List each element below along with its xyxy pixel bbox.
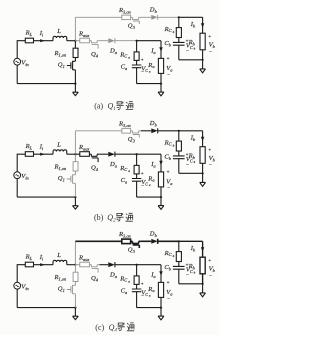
wire Raux to Q4 (b) xyxy=(89,153,91,155)
wire Da to node C (b) xyxy=(115,153,137,155)
wire Rb to b bottom (a) xyxy=(202,50,204,60)
transistor Q3 (b) xyxy=(131,131,141,138)
wire node A up (b) xyxy=(74,131,76,154)
wire node A to Raux (c) xyxy=(75,264,79,266)
inductor L (b) xyxy=(53,150,67,154)
resistor Ra (c) xyxy=(158,282,163,297)
diode Da (b) xyxy=(108,152,115,157)
svg-text:−: − xyxy=(167,186,171,192)
voltage source Vin (b) xyxy=(14,172,21,179)
resistor RCa (b) xyxy=(134,165,139,174)
wire node B down (a) xyxy=(178,17,180,27)
diode Db (a) xyxy=(151,15,157,20)
node A junction (b) xyxy=(74,153,76,155)
junction dot a bottom (a) xyxy=(160,83,162,85)
wire Q1 to bottom rail (a) xyxy=(74,70,76,84)
wire node B to Rb branch (a) xyxy=(179,17,203,33)
wire RCa to Ca (c) xyxy=(136,284,138,289)
svg-text:−: − xyxy=(186,272,190,278)
resistor R1on (b) xyxy=(73,162,78,171)
current arrow Ib (c) xyxy=(201,247,204,252)
wire Db to node B (b) xyxy=(158,130,179,132)
ground main (b) xyxy=(74,197,76,206)
svg-text:−: − xyxy=(186,162,190,168)
wire node C down (c) xyxy=(136,265,138,276)
svg-text:+: + xyxy=(166,170,170,176)
wire RCb to Cb (a) xyxy=(178,38,180,43)
svg-text:L: L xyxy=(56,28,61,35)
junction dot a bottom (b) xyxy=(160,196,162,198)
wire Raux to Q4 (a) xyxy=(89,40,91,42)
svg-text:−: − xyxy=(209,273,213,279)
resistor Rb (c) xyxy=(200,257,205,274)
svg-text:−: − xyxy=(141,294,145,300)
wire RL to L with current arrow Ii (a) xyxy=(34,40,54,42)
resistor Ra (a) xyxy=(158,58,163,73)
svg-text:a: a xyxy=(128,279,130,283)
current arrow Ii (b) xyxy=(40,153,45,156)
node A junction (a) xyxy=(74,40,76,42)
inductor L (c) xyxy=(53,260,67,264)
resistor Raux (c) xyxy=(80,262,90,267)
diode Db (c) xyxy=(151,239,157,244)
wire node A up (c) xyxy=(74,241,76,264)
svg-text:−: − xyxy=(167,72,171,78)
bottom rail (a) xyxy=(17,83,75,85)
junction dot b bottom (b) xyxy=(202,172,204,174)
ground b (a) xyxy=(202,60,204,69)
wire RCb to Cb (c) xyxy=(178,262,180,267)
resistor RL (b) xyxy=(25,152,33,157)
wire node A down to R1on (c) xyxy=(74,265,76,273)
circuit (c) xyxy=(14,231,216,320)
wire Q3 to Db (a) xyxy=(141,16,151,18)
wire Rb to b bottom (b) xyxy=(202,163,204,173)
current arrow Ib (a) xyxy=(201,23,204,28)
ground main (a) xyxy=(74,84,76,93)
resistor RCb (c) xyxy=(176,252,181,262)
junction dot a bottom (c) xyxy=(160,307,162,309)
junction dot bottom rail (a) xyxy=(74,83,76,85)
svg-text:(c): (c) xyxy=(95,323,104,332)
wire Q1 to bottom rail (b) xyxy=(74,183,76,197)
svg-text:(b): (b) xyxy=(94,213,104,222)
svg-text:+: + xyxy=(166,280,170,286)
wire node A up (a) xyxy=(74,17,76,40)
wire node C down (b) xyxy=(136,154,138,165)
wire Vin top to RL (c) xyxy=(17,265,25,283)
transistor Q4 (a) xyxy=(91,41,99,49)
resistor Raux (b) xyxy=(80,152,90,157)
transistor Q1 (c) xyxy=(67,285,76,294)
svg-text:−: − xyxy=(167,296,171,302)
wire Da to node C (c) xyxy=(115,264,137,266)
bottom rail (c) xyxy=(17,307,75,309)
wire RCb to Cb (b) xyxy=(178,151,180,156)
capacitor Ca (a) xyxy=(132,65,141,68)
transistor Q1 (a) xyxy=(67,61,76,70)
wire node C down (a) xyxy=(136,41,138,52)
wire R1on to Q1 (b) xyxy=(74,171,76,175)
resistor RL (a) xyxy=(25,38,33,43)
resistor R3on (a) xyxy=(122,15,131,20)
svg-text:b: b xyxy=(173,30,175,34)
junction dot bottom rail (b) xyxy=(74,196,76,198)
wire node B to Rb branch (b) xyxy=(179,131,203,147)
top rail wire (c) xyxy=(75,240,121,242)
current arrow Ia (c) xyxy=(159,271,162,276)
resistor Ra (b) xyxy=(158,172,163,187)
voltage source Vin (a) xyxy=(14,58,21,65)
resistor Raux (a) xyxy=(80,38,90,43)
wire Ca to a bottom (c) xyxy=(136,292,138,308)
svg-text:−: − xyxy=(186,48,190,54)
wire Ra to a bottom (b) xyxy=(160,187,162,197)
current arrow Ia (b) xyxy=(159,161,162,166)
wire Da to node C (a) xyxy=(115,40,137,42)
svg-text:a: a xyxy=(128,55,130,59)
wire Ra to a bottom (c) xyxy=(160,297,162,307)
resistor RCb (a) xyxy=(176,28,181,38)
wire Vin top to RL (a) xyxy=(17,41,25,59)
wire L to node A (c) xyxy=(67,264,76,266)
svg-text:+: + xyxy=(208,148,212,154)
ground b (c) xyxy=(202,284,204,293)
junction dot b bottom (a) xyxy=(202,59,204,61)
wire Vin bottom (b) xyxy=(16,179,18,198)
inductor L (a) xyxy=(53,36,67,40)
wire Q3 to Db (b) xyxy=(141,130,151,132)
voltage source Vin (c) xyxy=(14,282,21,289)
wire RL to L with current arrow Ii (c) xyxy=(34,264,54,266)
wire node A down to R1on (a) xyxy=(74,41,76,49)
svg-text:a: a xyxy=(128,169,130,173)
svg-text:+: + xyxy=(140,171,144,177)
node A junction (c) xyxy=(74,264,76,266)
capacitor Ca (b) xyxy=(132,179,141,182)
current arrow Ii (c) xyxy=(40,263,45,266)
node B junction (c) xyxy=(178,240,180,242)
svg-text:(a): (a) xyxy=(94,102,103,111)
wire Vin top to RL (b) xyxy=(17,154,25,172)
resistor R3on (c) xyxy=(122,239,131,244)
top rail wire (a) xyxy=(75,16,121,18)
resistor RCb (b) xyxy=(176,141,181,151)
resistor RL (c) xyxy=(25,262,33,267)
wire RCa to Ca (a) xyxy=(136,60,138,65)
resistor Rb (a) xyxy=(200,33,205,50)
wire node A down to R1on (b) xyxy=(74,154,76,162)
svg-text:b: b xyxy=(173,143,175,147)
a bottom wire (b) xyxy=(137,196,161,198)
b bottom wire (c) xyxy=(179,283,203,285)
junction dot bottom rail (c) xyxy=(74,307,76,309)
wire Ca to a bottom (b) xyxy=(136,181,138,197)
svg-text:−: − xyxy=(209,163,213,169)
wire Db to node B (c) xyxy=(158,240,179,242)
diode Da (a) xyxy=(108,38,115,43)
capacitor Ca (c) xyxy=(132,289,141,292)
wire node B to Rb branch (c) xyxy=(179,241,203,257)
svg-text:+: + xyxy=(208,258,212,264)
resistor RCa (c) xyxy=(134,276,139,285)
transistor Q3 (c) xyxy=(131,241,141,248)
circuit (a) xyxy=(14,7,216,96)
wire Db to node B (a) xyxy=(158,16,179,18)
current arrow Ib (b) xyxy=(201,137,204,142)
wire RL to L with current arrow Ii (b) xyxy=(34,153,54,155)
wire Cb to b bottom (a) xyxy=(178,45,180,60)
svg-text:L: L xyxy=(56,142,61,149)
a bottom wire (c) xyxy=(137,307,161,309)
transistor Q4 (b) xyxy=(91,154,99,162)
wire R1on to Q1 (a) xyxy=(74,58,76,62)
ground main (c) xyxy=(74,308,76,317)
resistor RCa (a) xyxy=(134,52,139,61)
node B junction (a) xyxy=(178,16,180,18)
wire node C to Ra branch (a) xyxy=(137,41,161,59)
wire Q4 to Da (a) xyxy=(99,40,108,42)
top rail wire (b) xyxy=(75,130,121,132)
node B junction (b) xyxy=(178,130,180,132)
transistor Q1 (b) xyxy=(67,174,76,183)
wire Rb to b bottom (c) xyxy=(202,274,204,284)
ground a (a) xyxy=(160,84,162,93)
b bottom wire (b) xyxy=(179,172,203,174)
current arrow Ii (a) xyxy=(40,39,45,42)
node C junction (b) xyxy=(136,153,138,155)
wire Cb to b bottom (c) xyxy=(178,269,180,284)
wire Q4 to Da (b) xyxy=(99,153,108,155)
svg-text:+: + xyxy=(166,56,170,62)
wire node C to Ra branch (b) xyxy=(137,154,161,172)
wire Vin bottom (c) xyxy=(16,289,18,308)
resistor R3on (b) xyxy=(122,129,131,134)
wire Q3 to Db (c) xyxy=(141,240,151,242)
wire Q1 to bottom rail (c) xyxy=(74,294,76,308)
svg-text:+: + xyxy=(208,34,212,40)
svg-text:−: − xyxy=(141,183,145,189)
b bottom wire (a) xyxy=(179,59,203,61)
ground b (b) xyxy=(202,173,204,182)
node C junction (c) xyxy=(136,264,138,266)
resistor Rb (b) xyxy=(200,147,205,164)
capacitor Cb (c) xyxy=(173,266,185,269)
wire Q4 to Da (c) xyxy=(99,264,108,266)
ground a (c) xyxy=(160,308,162,317)
svg-text:+: + xyxy=(140,58,144,64)
svg-text:b: b xyxy=(173,254,175,258)
capacitor Cb (b) xyxy=(173,156,185,159)
a bottom wire (a) xyxy=(137,83,161,85)
capacitor Cb (a) xyxy=(173,42,185,45)
diode Da (c) xyxy=(108,262,115,267)
wire Vin bottom (a) xyxy=(16,65,18,84)
svg-text:L: L xyxy=(56,252,61,259)
resistor R1on (a) xyxy=(73,48,78,57)
wire L to node A (b) xyxy=(67,153,76,155)
wire node B down (b) xyxy=(178,131,180,141)
wire Raux to Q4 (c) xyxy=(89,264,91,266)
node C junction (a) xyxy=(136,40,138,42)
wire node B down (c) xyxy=(178,241,180,251)
resistor R1on (c) xyxy=(73,272,78,281)
wire L to node A (a) xyxy=(67,40,76,42)
current arrow Ia (a) xyxy=(159,47,162,52)
wire RCa to Ca (b) xyxy=(136,174,138,179)
wire node A to Raux (a) xyxy=(75,40,79,42)
circuit (b) xyxy=(14,120,216,209)
transistor Q4 (c) xyxy=(91,265,99,273)
wire R1on to Q1 (c) xyxy=(74,282,76,286)
wire Ca to a bottom (a) xyxy=(136,68,138,84)
svg-text:−: − xyxy=(141,70,145,76)
svg-text:−: − xyxy=(209,49,213,55)
diode Db (b) xyxy=(151,128,157,133)
wire Ra to a bottom (a) xyxy=(160,73,162,83)
svg-text:+: + xyxy=(140,282,144,288)
junction dot b bottom (c) xyxy=(202,283,204,285)
wire Cb to b bottom (b) xyxy=(178,159,180,174)
bottom rail (b) xyxy=(17,196,75,198)
ground a (b) xyxy=(160,197,162,206)
wire node A to Raux (b) xyxy=(75,153,79,155)
wire node C to Ra branch (c) xyxy=(137,265,161,283)
transistor Q3 (a) xyxy=(131,17,141,24)
